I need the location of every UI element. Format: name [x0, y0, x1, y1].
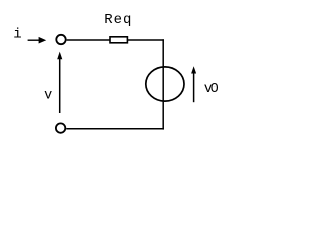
wire right vertical branch [162, 39, 164, 129]
voltage arrow v [57, 52, 62, 113]
wire terminal-a to resistor [67, 39, 110, 41]
terminal node b (bottom-left) [56, 123, 65, 132]
wire bottom [66, 128, 164, 130]
voltage arrow v0 [191, 66, 196, 102]
svg-text:v0: v0 [204, 81, 219, 97]
svg-text:Req: Req [104, 12, 132, 28]
svg-text:v: v [44, 88, 52, 103]
svg-text:i: i [13, 27, 21, 43]
current arrow i [28, 37, 47, 44]
resistor Req body [110, 37, 127, 43]
wire resistor to top-right corner [128, 39, 164, 41]
terminal node a (top-left) [56, 35, 65, 44]
source V0 (circle symbol) [146, 67, 184, 101]
label v0 [204, 81, 219, 97]
